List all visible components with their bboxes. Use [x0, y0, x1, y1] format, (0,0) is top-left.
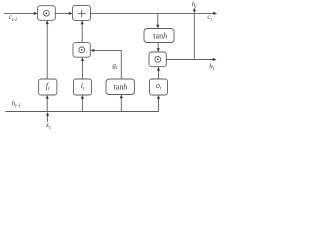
wire o_t to U5 — [158, 70, 160, 79]
gate f_t — [39, 79, 57, 95]
wire U3 to multiplier U5 — [157, 43, 159, 50]
svg-text:ct-1: ct-1 — [9, 13, 18, 23]
gate o_t — [150, 79, 168, 95]
multiplier U1 (forget gate pointwise product) — [38, 6, 56, 21]
wire c_{t-1} to multiplier U1 — [4, 12, 35, 14]
wire U5 to h_t output — [166, 59, 213, 61]
tanh U3 — [144, 29, 174, 43]
gate g (tanh) — [106, 79, 135, 95]
adder U2 (+) — [73, 5, 91, 20]
svg-text:tanh: tanh — [114, 82, 128, 91]
svg-text:ht: ht — [209, 63, 215, 73]
svg-text:xt: xt — [45, 121, 51, 131]
wire branch h_t up to top output — [193, 11, 195, 60]
svg-text:ht-1: ht-1 — [12, 99, 21, 109]
svg-text:gt: gt — [112, 62, 118, 72]
wire U4 to U2 — [81, 24, 83, 43]
gate i_t — [74, 79, 92, 95]
wire baseline to i_t — [81, 98, 83, 111]
svg-text:ht: ht — [192, 1, 198, 11]
wire baseline to f_t — [46, 98, 48, 111]
wire h_{t-1}/x_t baseline — [5, 111, 158, 113]
wire U2 to c_t output — [91, 12, 214, 14]
svg-text:ct: ct — [207, 13, 212, 23]
wire baseline to o_t — [158, 98, 160, 111]
wire g to U4 — [94, 50, 122, 79]
wire f_t to U1 — [46, 23, 48, 79]
wire branch c to tanh U3 — [157, 13, 159, 25]
wire i_t to U4 — [81, 60, 83, 79]
wire baseline to g — [120, 98, 122, 112]
wire U1 to adder U2 — [55, 12, 69, 14]
multiplier U5 (output gate pointwise product) — [149, 52, 166, 67]
wire x_t to baseline — [47, 116, 49, 122]
multiplier U4 (input gate pointwise product) — [73, 43, 90, 58]
svg-text:tanh: tanh — [153, 31, 167, 40]
